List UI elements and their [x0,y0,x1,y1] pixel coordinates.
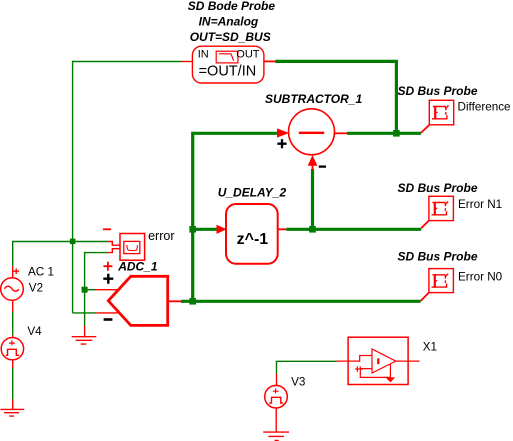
svg-text:Error N0: Error N0 [458,270,503,283]
label U_DELAY_2 [218,186,287,200]
source V4 body [1,338,23,360]
wire V4 to ground green [12,368,14,400]
svg-text:IN: IN [198,48,209,60]
svg-text:=OUT/IN: =OUT/IN [199,63,257,79]
source V2 plus marker [13,268,19,274]
ADC output stub red [168,300,181,302]
subtractor minus sign inside [299,132,324,134]
svg-text:SD Bus Probe: SD Bus Probe [398,84,478,98]
node junction ADC plus input [82,287,88,293]
source V4 top stub [12,335,14,337]
label SD Bus Probe (Error N0) [398,249,478,263]
wire ADC plus input green [85,289,96,291]
probe Error N0 diagonal stub [421,293,429,301]
label SD Bus Probe (Difference) [398,84,478,98]
svg-text:OUT=SD_BUS: OUT=SD_BUS [190,30,271,44]
svg-text:V2: V2 [29,282,43,295]
ADC U3 body pentagon [108,276,167,325]
probe Difference box [429,100,453,125]
bus subtractor plus input and error vertical [193,133,277,301]
svg-text:SD Bode Probe: SD Bode Probe [188,0,276,13]
opamp X1 feedback and ground arrow [355,365,395,383]
wire source net horizontal V2 to error probe [13,241,108,243]
bus subtractor output [347,132,421,135]
svg-text:X1: X1 [423,340,437,353]
opamp X1 input stub red [337,356,373,362]
subtractor minus input arrow [308,155,318,170]
svg-text:SD Bus Probe: SD Bus Probe [398,181,478,195]
label OUT=SD_BUS [190,30,271,44]
source V2 top stub [12,266,14,278]
bode probe icon [216,51,238,63]
svg-text:SD Bus Probe: SD Bus Probe [398,249,478,263]
label SUBTRACTOR_1 [265,92,362,106]
label ADC_1 [117,260,158,274]
probe Difference diagonal stub [421,125,429,133]
probe error plus marker red [103,262,112,271]
svg-text:U_DELAY_2: U_DELAY_2 [218,186,287,200]
label Error N1 [458,198,502,211]
wire analog net left vertical [72,61,74,313]
svg-text:AC 1: AC 1 [28,265,54,278]
label SD Bus Probe (Error N1) [398,181,478,195]
label =OUT/IN [199,63,257,79]
bode probe U block body [192,46,264,83]
wire V3 to X1 green [277,361,337,373]
svg-text:OUT: OUT [236,48,259,60]
probe Error N1 diagonal stub [421,221,429,229]
opamp X1 box [348,337,408,384]
svg-text:z^-1: z^-1 [237,231,269,248]
wire ADC minus input green [73,312,97,314]
subtractor output stub [335,132,347,134]
subtractor minus marker [319,165,326,167]
label SD Bode Probe [188,0,276,13]
label error [148,229,174,243]
delay input arrowhead [217,225,227,234]
label IN=Analog [199,14,259,28]
source V2 bottom stub [12,301,14,312]
ADC minus input stub red [96,312,118,314]
opamp X1 output stub [396,360,420,362]
opamp X1 triangle [372,349,396,373]
node junction subtractor minus branch [309,226,316,233]
bus SD from Bode probe OUT to feedback corner [275,61,396,133]
delay output stub [278,228,287,230]
svg-text:V3: V3 [291,376,305,389]
source V3 top stub [276,374,278,386]
node junction ADC output bus [189,298,196,305]
wire V2 top branch vertical [12,241,14,266]
source V3 bottom stub [275,408,277,432]
probe Error N1 box [429,196,454,220]
probe error minus marker red [103,228,111,230]
bode probe output stub [264,60,275,62]
label V2 [29,282,43,295]
delay U2 body [226,204,278,264]
bus ADC output to Error N0 [181,300,421,303]
source V3 body [265,385,288,408]
svg-text:ADC_1: ADC_1 [117,260,158,274]
label V4 [27,325,42,338]
label Error N0 [458,270,503,283]
ground below V3 [263,432,289,440]
wire analog net to Bode probe IN (horizontal) [72,61,181,63]
wire V2 to V4 green [12,312,14,336]
probe error icon curve [127,245,138,251]
svg-text:V4: V4 [27,325,42,338]
label X1 [423,340,437,353]
ADC minus marker black [104,318,113,321]
label V3 [291,376,305,389]
node junction source net [70,239,76,245]
subtractor plus marker [277,139,286,148]
label Difference [458,100,511,113]
subtractor U1 body circle [289,109,335,155]
probe error box [120,234,145,261]
probe Difference icon [432,105,449,119]
ground below V4 [0,400,24,417]
source V4 bottom stub [12,360,14,368]
svg-text:error: error [148,229,174,243]
bus U_DELAY input [193,228,217,231]
pin label IN [198,48,209,60]
ground below error bus net [72,326,97,344]
probe error pins [108,242,120,253]
probe Error N0 box [429,269,454,293]
label AC 1 [28,265,54,278]
pin label OUT [236,48,259,60]
node junction U_DELAY input [189,226,196,233]
bus subtractor minus input vertical [311,169,314,229]
bode probe input stub [181,61,192,63]
subtractor plus input arrowhead [277,128,289,137]
svg-text:Error N1: Error N1 [458,198,502,211]
ADC plus marker black [103,274,113,284]
bus U_DELAY output to Error N1 [286,228,421,231]
source V2 body [1,278,24,301]
node junction feedback/subtractor output [393,130,400,137]
svg-text:Difference: Difference [458,100,511,113]
probe Error N0 icon [432,274,449,288]
label z^-1 [237,231,269,248]
wire error probe lower pin net [85,253,109,326]
ADC plus input stub red [96,289,120,291]
svg-text:SUBTRACTOR_1: SUBTRACTOR_1 [265,92,362,106]
svg-text:IN=Analog: IN=Analog [199,14,259,28]
probe Error N1 icon [432,201,449,215]
